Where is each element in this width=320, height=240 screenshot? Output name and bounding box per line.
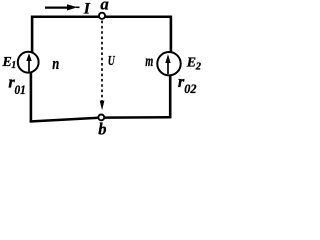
label E2 (186, 55, 202, 72)
voltage arrow U (dashed) (100, 21, 105, 111)
wire right lower (169, 76, 172, 118)
svg-text:02: 02 (184, 81, 197, 96)
svg-text:a: a (100, 0, 108, 13)
node a (99, 13, 105, 19)
label r02 (178, 72, 197, 96)
label r01 (8, 72, 25, 96)
svg-text:1: 1 (11, 60, 16, 71)
wire right upper (170, 16, 173, 53)
svg-text:2: 2 (195, 61, 202, 72)
wire left upper (31, 16, 34, 53)
svg-text:E: E (186, 55, 196, 70)
source E1 (circle) (18, 52, 39, 73)
svg-text:U: U (108, 54, 116, 69)
label E1 (2, 55, 17, 71)
wire left lower (30, 73, 33, 122)
source E2 arrow (165, 54, 170, 74)
svg-text:I: I (83, 1, 91, 18)
svg-text:01: 01 (15, 82, 26, 97)
wire top (31, 16, 172, 19)
svg-text:n: n (52, 54, 59, 73)
svg-text:m: m (145, 53, 153, 70)
current arrow I (45, 4, 80, 10)
svg-text:b: b (98, 120, 106, 138)
source E2 (circle) (157, 52, 180, 75)
wire bottom (30, 117, 171, 121)
svg-text:E: E (2, 55, 12, 70)
source E1 arrow (26, 53, 31, 71)
node b (98, 115, 104, 121)
